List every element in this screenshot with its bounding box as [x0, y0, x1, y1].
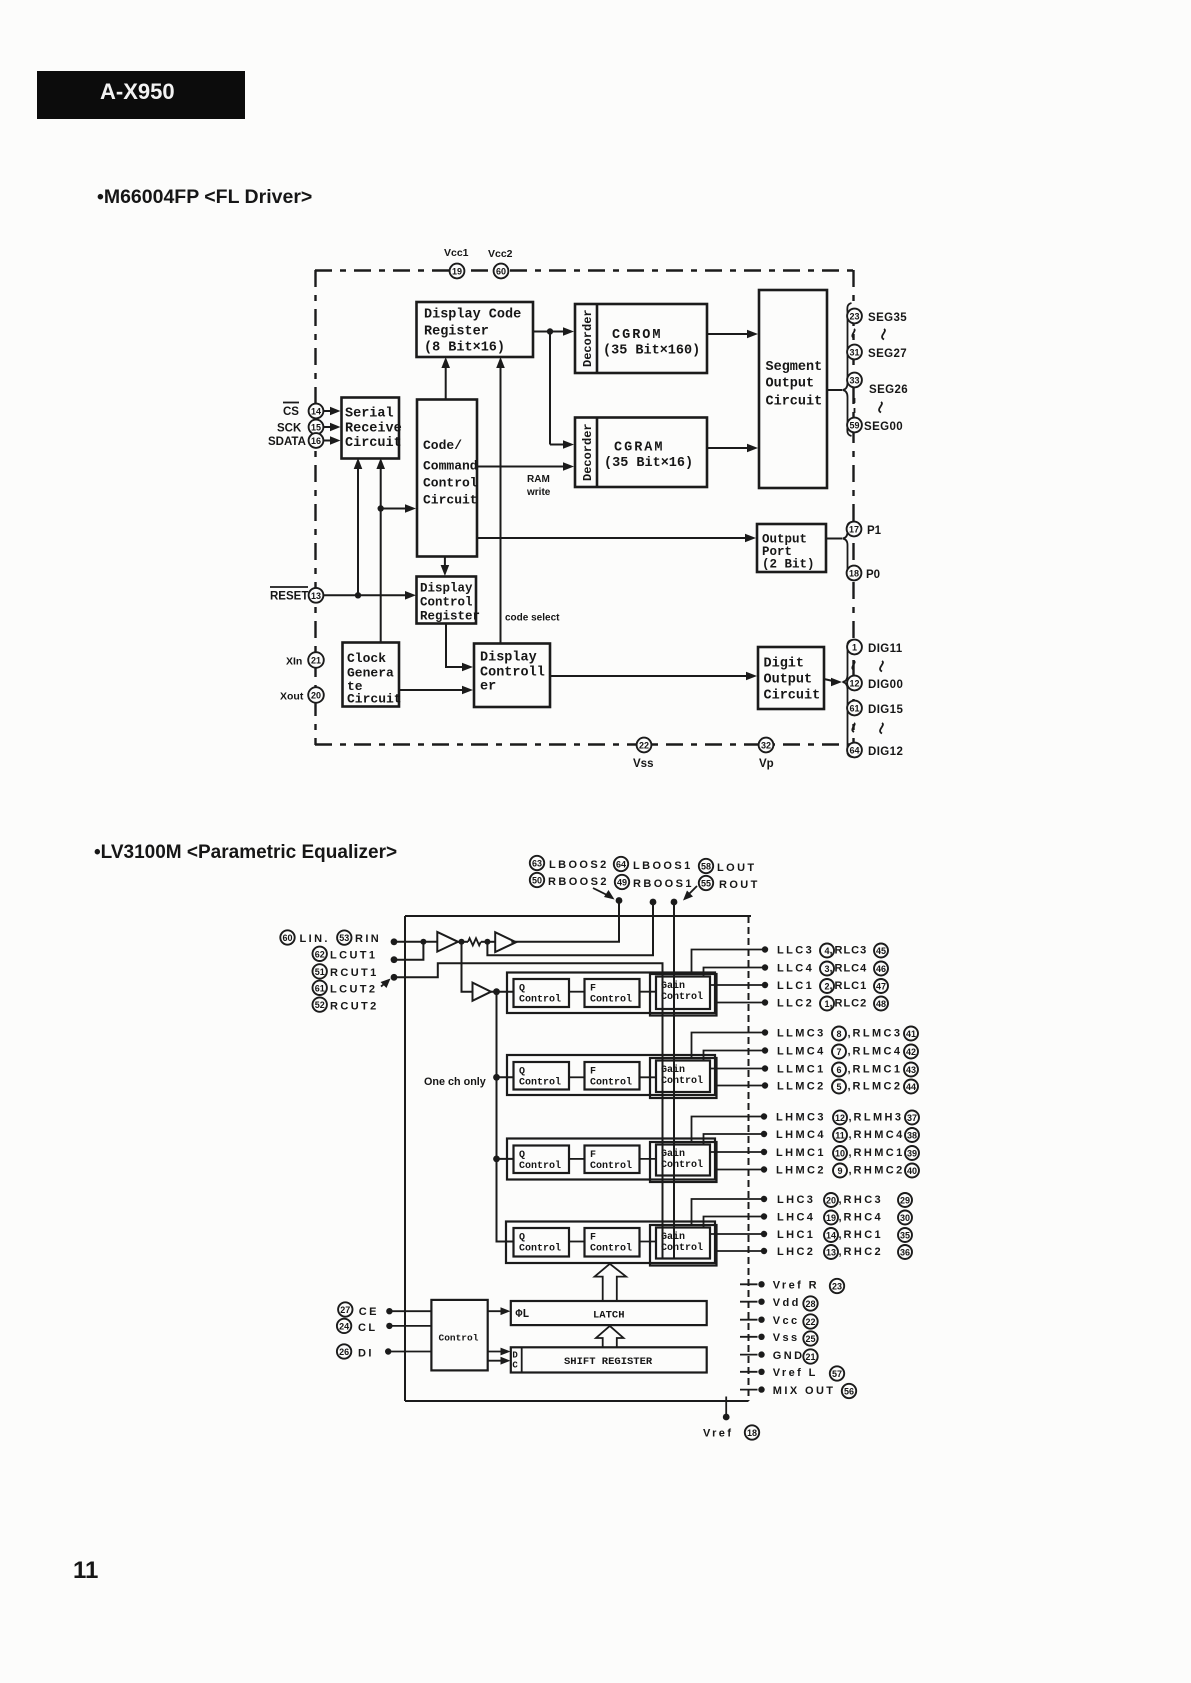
pin 14 CS with input arrow to Serial Receive: [283, 403, 341, 419]
pin 59 SEG00: [847, 418, 903, 433]
svg-text:19: 19: [452, 267, 462, 277]
pin 51 RCUT1: [313, 964, 398, 980]
svg-text:Control: Control: [423, 476, 478, 491]
svg-text:RHMC1: RHMC1: [854, 1147, 905, 1159]
svg-text:,: ,: [839, 1229, 842, 1241]
wire: Control to SHIFT REGISTER C: [488, 1357, 511, 1365]
wire: Code/Command Control up to Display Code Register: [441, 357, 450, 400]
svg-text:21: 21: [311, 656, 321, 666]
svg-text:60: 60: [496, 267, 506, 277]
wire: Code/Command down to Display Control Register: [441, 557, 450, 577]
IC boundary box U2 LV3100M: [405, 916, 751, 1401]
block: F Control row 4: [585, 1228, 640, 1257]
svg-text:,: ,: [849, 1165, 852, 1177]
pin 64 DIG12: [847, 743, 903, 758]
pin 60 Vcc2: [488, 248, 513, 278]
wire: code select (Display Controller up to Display Code Register): [496, 357, 560, 644]
pin 18 Vref (bottom): [703, 1397, 759, 1440]
svg-text:23: 23: [849, 312, 859, 322]
block: Control: [431, 1300, 487, 1371]
svg-text:Display Code: Display Code: [424, 308, 521, 323]
pin labels: LHMC1(10),RHMC1(39): [776, 1146, 919, 1160]
svg-text:20: 20: [826, 1196, 836, 1206]
wire: LIN input to buffer 1: [394, 939, 437, 945]
svg-text:P1: P1: [867, 525, 882, 537]
pin 23 Vref R: [740, 1279, 844, 1293]
svg-text:Vcc: Vcc: [773, 1315, 800, 1327]
wires: row 1 outputs to LC pins: [692, 946, 769, 1005]
svg-text:(8 Bit×16): (8 Bit×16): [424, 341, 505, 356]
block: Gain Control row 1 with shadow box: [650, 974, 717, 1016]
svg-text:33: 33: [849, 376, 859, 386]
svg-text:One ch only: One ch only: [424, 1076, 486, 1088]
svg-text:SEG26: SEG26: [869, 384, 908, 396]
svg-text:LBOOS2: LBOOS2: [549, 859, 609, 871]
wire: F to Gain row 2: [640, 1076, 657, 1078]
svg-text:LBOOS1: LBOOS1: [633, 860, 693, 872]
pin labels: LLC2(1),RLC2(48): [777, 997, 888, 1011]
svg-text:RHC2: RHC2: [844, 1246, 884, 1258]
svg-text:LLMC4: LLMC4: [777, 1046, 826, 1058]
svg-text:44: 44: [906, 1082, 916, 1092]
svg-text:Control: Control: [661, 1242, 703, 1254]
svg-text:Control: Control: [590, 1077, 632, 1089]
wire: Control to LATCH: [488, 1307, 511, 1315]
svg-text:30: 30: [900, 1213, 910, 1223]
pin labels: LLMC1(6),RLMC1(43): [777, 1063, 918, 1077]
svg-text:Control: Control: [519, 994, 561, 1006]
svg-text:41: 41: [906, 1029, 916, 1039]
svg-text:22: 22: [639, 741, 649, 751]
svg-text:RAM: RAM: [527, 474, 550, 485]
svg-text:Control: Control: [661, 1159, 703, 1171]
svg-text:F: F: [590, 984, 596, 995]
svg-text:27: 27: [340, 1305, 350, 1315]
pin labels: LHMC2(9),RHMC2(40): [776, 1164, 919, 1178]
svg-text:LLC3: LLC3: [777, 945, 814, 957]
pin labels: LLC3(4),RLC3(45): [777, 944, 888, 958]
block: Gain Control row 3 with shadow box: [650, 1142, 717, 1182]
svg-text:(2 Bit): (2 Bit): [762, 558, 815, 572]
svg-text:Gain: Gain: [661, 980, 685, 992]
svg-text:5: 5: [836, 1082, 841, 1092]
svg-text:C: C: [512, 1361, 518, 1371]
svg-text:RHMC4: RHMC4: [854, 1129, 905, 1141]
svg-text:Gain: Gain: [661, 1231, 685, 1243]
svg-text:D: D: [512, 1351, 518, 1361]
svg-text:RLMC2: RLMC2: [853, 1081, 903, 1093]
svg-text:9: 9: [837, 1166, 842, 1176]
svg-text:47: 47: [876, 982, 886, 992]
svg-text:64: 64: [616, 860, 626, 870]
svg-text:Clock: Clock: [347, 651, 386, 666]
svg-text:Control: Control: [519, 1160, 561, 1172]
svg-text:61: 61: [315, 983, 325, 993]
svg-text:RBOOS1: RBOOS1: [633, 878, 694, 890]
block: F Control row 3: [585, 1146, 640, 1174]
svg-text:10: 10: [835, 1149, 845, 1159]
block: SHIFT REGISTER with D C inputs: [511, 1347, 707, 1372]
svg-text:LLMC3: LLMC3: [777, 1028, 826, 1040]
pin 58 LOUT: [699, 859, 757, 874]
svg-text:F: F: [590, 1150, 596, 1161]
svg-text:Vp: Vp: [759, 758, 774, 770]
svg-text:57: 57: [832, 1369, 842, 1379]
svg-text:SEG35: SEG35: [868, 312, 907, 324]
svg-text:CGRAM: CGRAM: [614, 441, 665, 456]
svg-text:62: 62: [315, 949, 325, 959]
pin labels: LLC4(3),RLC4(46): [777, 962, 888, 976]
svg-text:F: F: [590, 1067, 596, 1078]
wire: Q to F row 3: [569, 1158, 585, 1160]
svg-text:•LV3100M <Parametric Equalizer: •LV3100M <Parametric Equalizer>: [94, 842, 397, 863]
svg-text:,: ,: [830, 963, 833, 975]
pin 23 SEG35: [847, 309, 907, 324]
svg-text:1: 1: [852, 643, 857, 653]
buffer amp 3: [473, 983, 492, 1001]
buffer amp 1: [437, 932, 458, 952]
svg-text:20: 20: [311, 691, 321, 701]
wire: down from buffer1 output to EQ buffer 3: [462, 942, 473, 992]
svg-text:LATCH: LATCH: [593, 1310, 625, 1322]
wire: RCUT1 line routed to gain control column: [394, 963, 663, 1258]
svg-text:(35 Bit×160): (35 Bit×160): [603, 344, 700, 359]
svg-text:52: 52: [315, 1000, 325, 1010]
svg-text:er: er: [480, 680, 496, 695]
svg-text:,: ,: [848, 1046, 851, 1058]
brace: DIG pin group: [843, 640, 852, 757]
pin 19 Vcc1: [444, 247, 469, 278]
svg-text:,: ,: [849, 1147, 852, 1159]
wire: CGROM to Segment Output Circuit: [707, 330, 758, 339]
svg-text:RLC1: RLC1: [835, 980, 868, 992]
svg-text:55: 55: [701, 879, 711, 889]
svg-text:37: 37: [907, 1113, 917, 1123]
svg-text:Controll: Controll: [480, 666, 545, 681]
svg-text:RLMC4: RLMC4: [853, 1046, 903, 1058]
svg-text:31: 31: [849, 348, 859, 358]
pin 17 P1: [847, 522, 882, 537]
wire: Digit Output Circuit to DIG pin brace with arrow: [824, 678, 842, 687]
svg-text:Circuit: Circuit: [766, 395, 823, 410]
svg-text:,: ,: [848, 1064, 851, 1076]
pin 21 GND: [740, 1349, 818, 1363]
svg-text:Control: Control: [519, 1077, 561, 1089]
svg-text:Control: Control: [420, 596, 473, 610]
svg-text:RLMC3: RLMC3: [853, 1028, 903, 1040]
svg-text:26: 26: [339, 1347, 349, 1357]
svg-text:LHMC3: LHMC3: [776, 1112, 826, 1124]
svg-text:35: 35: [900, 1231, 910, 1241]
svg-text:RHMC2: RHMC2: [854, 1165, 905, 1177]
svg-text:7: 7: [836, 1047, 841, 1057]
wire: Output Port to P pin brace: [826, 538, 842, 540]
heading M66004FP FL Driver: [97, 186, 312, 208]
svg-text:RBOOS2: RBOOS2: [548, 876, 609, 888]
svg-text:GND: GND: [773, 1350, 805, 1362]
continuation squiggle between DIG11 and DIG00: [852, 661, 883, 672]
svg-text:RLC4: RLC4: [835, 963, 868, 975]
svg-text:Digit: Digit: [764, 657, 805, 672]
svg-text:•M66004FP <FL Driver>: •M66004FP <FL Driver>: [97, 186, 312, 208]
svg-text:SEG00: SEG00: [864, 421, 903, 433]
svg-text:53: 53: [339, 933, 349, 943]
svg-text:Q: Q: [519, 1067, 525, 1078]
svg-text:58: 58: [701, 862, 711, 872]
brace: SEG pin group: [843, 303, 852, 436]
svg-text:12: 12: [849, 679, 859, 689]
svg-text:RLC3: RLC3: [835, 945, 868, 957]
block: Q Control row 1: [514, 979, 570, 1007]
svg-text:LLMC2: LLMC2: [777, 1081, 826, 1093]
svg-text:19: 19: [826, 1213, 836, 1223]
svg-text:60: 60: [282, 933, 292, 943]
svg-text:,: ,: [849, 1112, 852, 1124]
wire: Clock Generate to Display Controller: [399, 686, 473, 695]
svg-text:Serial: Serial: [345, 407, 394, 422]
svg-text:Circuit: Circuit: [347, 692, 402, 707]
wire: Q to F row 1: [569, 991, 585, 993]
block: Gain Control row 2 with shadow box: [650, 1058, 717, 1098]
pin 63 LBOOS2: [530, 856, 609, 871]
pin 25 Vss: [740, 1331, 818, 1345]
svg-text:39: 39: [907, 1149, 917, 1159]
svg-text:56: 56: [844, 1387, 854, 1397]
EQ row 3 enclosure: [507, 1139, 715, 1180]
svg-text:29: 29: [900, 1196, 910, 1206]
svg-text:Control: Control: [590, 1243, 632, 1255]
svg-text:Receive: Receive: [345, 422, 402, 437]
svg-text:A-X950: A-X950: [100, 79, 175, 104]
svg-text:Vcc2: Vcc2: [488, 248, 513, 260]
svg-text:LHMC4: LHMC4: [776, 1129, 826, 1141]
wire: CGRAM to Segment Output Circuit: [707, 444, 758, 453]
svg-text:48: 48: [876, 999, 886, 1009]
block: Output Port (2 Bit): [757, 524, 826, 572]
wires: row 3 outputs to HMC pins: [692, 1113, 768, 1172]
node: LBOOS1/RBOOS1 terminal with wire to pre-buffer node: [487, 899, 656, 956]
svg-text:DIG00: DIG00: [868, 679, 903, 691]
node: LOUT/ROUT terminal with wire down through gain controls: [671, 899, 678, 1258]
svg-text:SEG27: SEG27: [868, 348, 907, 360]
pin 55 ROUT: [699, 876, 760, 891]
svg-text:13: 13: [311, 591, 321, 601]
block: F Control row 2: [585, 1062, 640, 1090]
wire: Q to F row 2: [569, 1076, 585, 1078]
block: Code/Command Control Circuit: [417, 400, 478, 557]
label: One ch only: [424, 1076, 486, 1088]
svg-text:11: 11: [73, 1557, 98, 1584]
svg-text:LIN.: LIN.: [300, 933, 330, 945]
EQ row 4 enclosure: [506, 1222, 715, 1264]
pin 56 MIX OUT: [740, 1384, 856, 1398]
svg-text:RLMC1: RLMC1: [853, 1064, 903, 1076]
bus arrow: LATCH up to EQ row 4: [595, 1264, 627, 1301]
pin 22 Vcc: [740, 1314, 818, 1328]
svg-text:CGROM: CGROM: [612, 328, 663, 343]
svg-text:code select: code select: [505, 613, 560, 624]
svg-text:CL: CL: [358, 1322, 377, 1334]
svg-text:Decorder: Decorder: [581, 309, 595, 367]
pin labels: LHC4(19),RHC4(30): [777, 1211, 912, 1225]
svg-text:F: F: [590, 1233, 596, 1244]
svg-text:Gain: Gain: [661, 1148, 685, 1160]
svg-text:Decorder: Decorder: [581, 423, 595, 481]
svg-text:Q: Q: [519, 1150, 525, 1161]
svg-text:,: ,: [839, 1194, 842, 1206]
svg-text:45: 45: [876, 946, 886, 956]
svg-text:Control: Control: [439, 1333, 479, 1344]
pin 20 Xout: [280, 687, 324, 703]
heading LV3100M Parametric Equalizer: [94, 842, 397, 863]
pin 31 SEG27: [847, 345, 907, 360]
svg-text:LHMC2: LHMC2: [776, 1165, 826, 1177]
svg-text:LCUT1: LCUT1: [330, 950, 377, 962]
svg-text:Display: Display: [420, 582, 473, 596]
svg-text:RCUT1: RCUT1: [330, 967, 379, 979]
wire: Display Controller to Digit Output Circuit: [550, 672, 757, 681]
svg-text:,: ,: [830, 998, 833, 1010]
svg-text:Vcc1: Vcc1: [444, 247, 469, 259]
pin labels: LHC1(14),RHC1(35): [777, 1228, 912, 1242]
svg-text:RHC4: RHC4: [844, 1212, 884, 1224]
wire: F to Gain row 3: [640, 1158, 657, 1160]
svg-text:LHC3: LHC3: [777, 1194, 815, 1206]
block: Serial Receive Circuit: [342, 398, 402, 459]
buffer amp 2: [495, 932, 516, 952]
svg-text:Circuit: Circuit: [423, 493, 478, 508]
wire: Segment Output Circuit to SEG pin brace: [827, 389, 842, 391]
svg-text:SHIFT REGISTER: SHIFT REGISTER: [564, 1356, 653, 1368]
svg-text:Circuit: Circuit: [764, 689, 821, 704]
wires: row 4 outputs to HC pins: [692, 1196, 768, 1254]
svg-text:Vdd: Vdd: [773, 1297, 801, 1309]
pin 18 P0: [847, 566, 880, 581]
block: Q Control row 4: [514, 1228, 570, 1257]
svg-text:Control: Control: [590, 994, 632, 1006]
wire: Q to F row 4: [569, 1241, 585, 1243]
pin 64 LBOOS1: [614, 857, 693, 872]
svg-text:Control: Control: [519, 1243, 561, 1255]
svg-text:LHC1: LHC1: [777, 1229, 815, 1241]
svg-text:,: ,: [830, 980, 833, 992]
pin 61 DIG15: [847, 701, 903, 716]
svg-text:Register: Register: [420, 610, 480, 624]
block: Digit Output Circuit: [758, 647, 824, 709]
svg-text:22: 22: [805, 1317, 815, 1327]
block: LATCH with phi-L input: [511, 1301, 707, 1325]
svg-text:,: ,: [848, 1081, 851, 1093]
svg-text:RHC1: RHC1: [844, 1229, 884, 1241]
svg-text:XIn: XIn: [286, 656, 302, 668]
pin labels: LHMC3(12),RLMH3(37): [776, 1111, 919, 1125]
svg-text:DIG11: DIG11: [868, 643, 903, 655]
arrow from BOOS2 labels to boost node: [593, 888, 615, 900]
EQ row 2 enclosure: [507, 1055, 715, 1095]
svg-text:DI: DI: [358, 1348, 374, 1360]
svg-text:Control: Control: [661, 991, 703, 1003]
pin labels: LLMC4(7),RLMC4(42): [777, 1045, 918, 1059]
wire: buffer1 to buffer2 with resistor: [458, 938, 495, 945]
pin labels: LLMC2(5),RLMC2(44): [777, 1080, 918, 1094]
pin 60 LIN and pin 53 RIN: [280, 930, 397, 945]
svg-text:Control: Control: [661, 1075, 703, 1087]
block: Q Control row 2: [514, 1062, 570, 1090]
pin 12 DIG00: [847, 676, 903, 691]
svg-text:LLC1: LLC1: [777, 980, 814, 992]
EQ row 1 enclosure: [507, 973, 715, 1014]
svg-text:63: 63: [532, 859, 542, 869]
svg-text:RESET: RESET: [270, 591, 308, 603]
svg-text:14: 14: [826, 1231, 836, 1241]
pin labels: LHMC4(11),RHMC4(38): [776, 1128, 919, 1142]
continuation squiggle between SEG26 and SEG00: [855, 398, 882, 413]
svg-text:18: 18: [747, 1428, 757, 1438]
svg-text:LLC2: LLC2: [777, 998, 814, 1010]
block: CGROM with Decorder: [575, 304, 707, 373]
svg-text:LCUT2: LCUT2: [330, 984, 377, 996]
svg-text:24: 24: [339, 1321, 349, 1331]
model name plate A-X950: [37, 71, 245, 119]
pin 57 Vref L: [740, 1366, 844, 1380]
block: Q Control row 3: [514, 1146, 570, 1174]
page number: [73, 1557, 98, 1584]
block: Display Code Register (8 Bit x16): [417, 302, 534, 357]
svg-text:LHC2: LHC2: [777, 1246, 815, 1258]
IC boundary dashed box U1 M66004FP: [315, 270, 854, 745]
svg-text:CS: CS: [283, 406, 299, 418]
pin 50 RBOOS2: [530, 873, 609, 888]
continuation squiggle between SEG35 and SEG27: [852, 329, 885, 340]
svg-text:CE: CE: [359, 1306, 379, 1318]
svg-text:Segment: Segment: [766, 360, 823, 375]
svg-text:Vss: Vss: [633, 758, 653, 770]
svg-text:write: write: [526, 487, 551, 498]
svg-text:46: 46: [876, 964, 886, 974]
svg-text:,: ,: [839, 1212, 842, 1224]
block: Display Controller: [474, 644, 550, 708]
svg-text:14: 14: [311, 407, 321, 417]
pin 27 CE: [338, 1302, 431, 1318]
wire: F to Gain row 4: [640, 1241, 657, 1243]
svg-text:MIX OUT: MIX OUT: [773, 1385, 836, 1397]
svg-text:SCK: SCK: [277, 423, 302, 435]
svg-text:61: 61: [849, 704, 859, 714]
svg-text:LLMC1: LLMC1: [777, 1064, 826, 1076]
svg-text:21: 21: [805, 1352, 815, 1362]
svg-text:16: 16: [311, 436, 321, 446]
svg-text:RLMH3: RLMH3: [854, 1112, 904, 1124]
svg-text:DIG12: DIG12: [868, 746, 903, 758]
svg-text:,: ,: [830, 945, 833, 957]
svg-text:,: ,: [849, 1129, 852, 1141]
svg-text:36: 36: [900, 1248, 910, 1258]
pin 1 DIG11: [847, 640, 903, 655]
svg-text:Vref L: Vref L: [773, 1367, 818, 1379]
pin 22 Vss: [633, 738, 653, 770]
svg-text:40: 40: [907, 1166, 917, 1176]
svg-text:P0: P0: [866, 569, 880, 581]
svg-text:Display: Display: [480, 651, 537, 666]
svg-text:28: 28: [805, 1299, 815, 1309]
svg-text:,: ,: [839, 1246, 842, 1258]
pin labels: LHC3(20),RHC3(29): [777, 1193, 912, 1207]
svg-text:Q: Q: [519, 984, 525, 995]
svg-text:Vref: Vref: [703, 1428, 733, 1440]
svg-text:8: 8: [836, 1029, 841, 1039]
pin 21 XIn: [286, 652, 324, 668]
svg-text:LHC4: LHC4: [777, 1212, 815, 1224]
